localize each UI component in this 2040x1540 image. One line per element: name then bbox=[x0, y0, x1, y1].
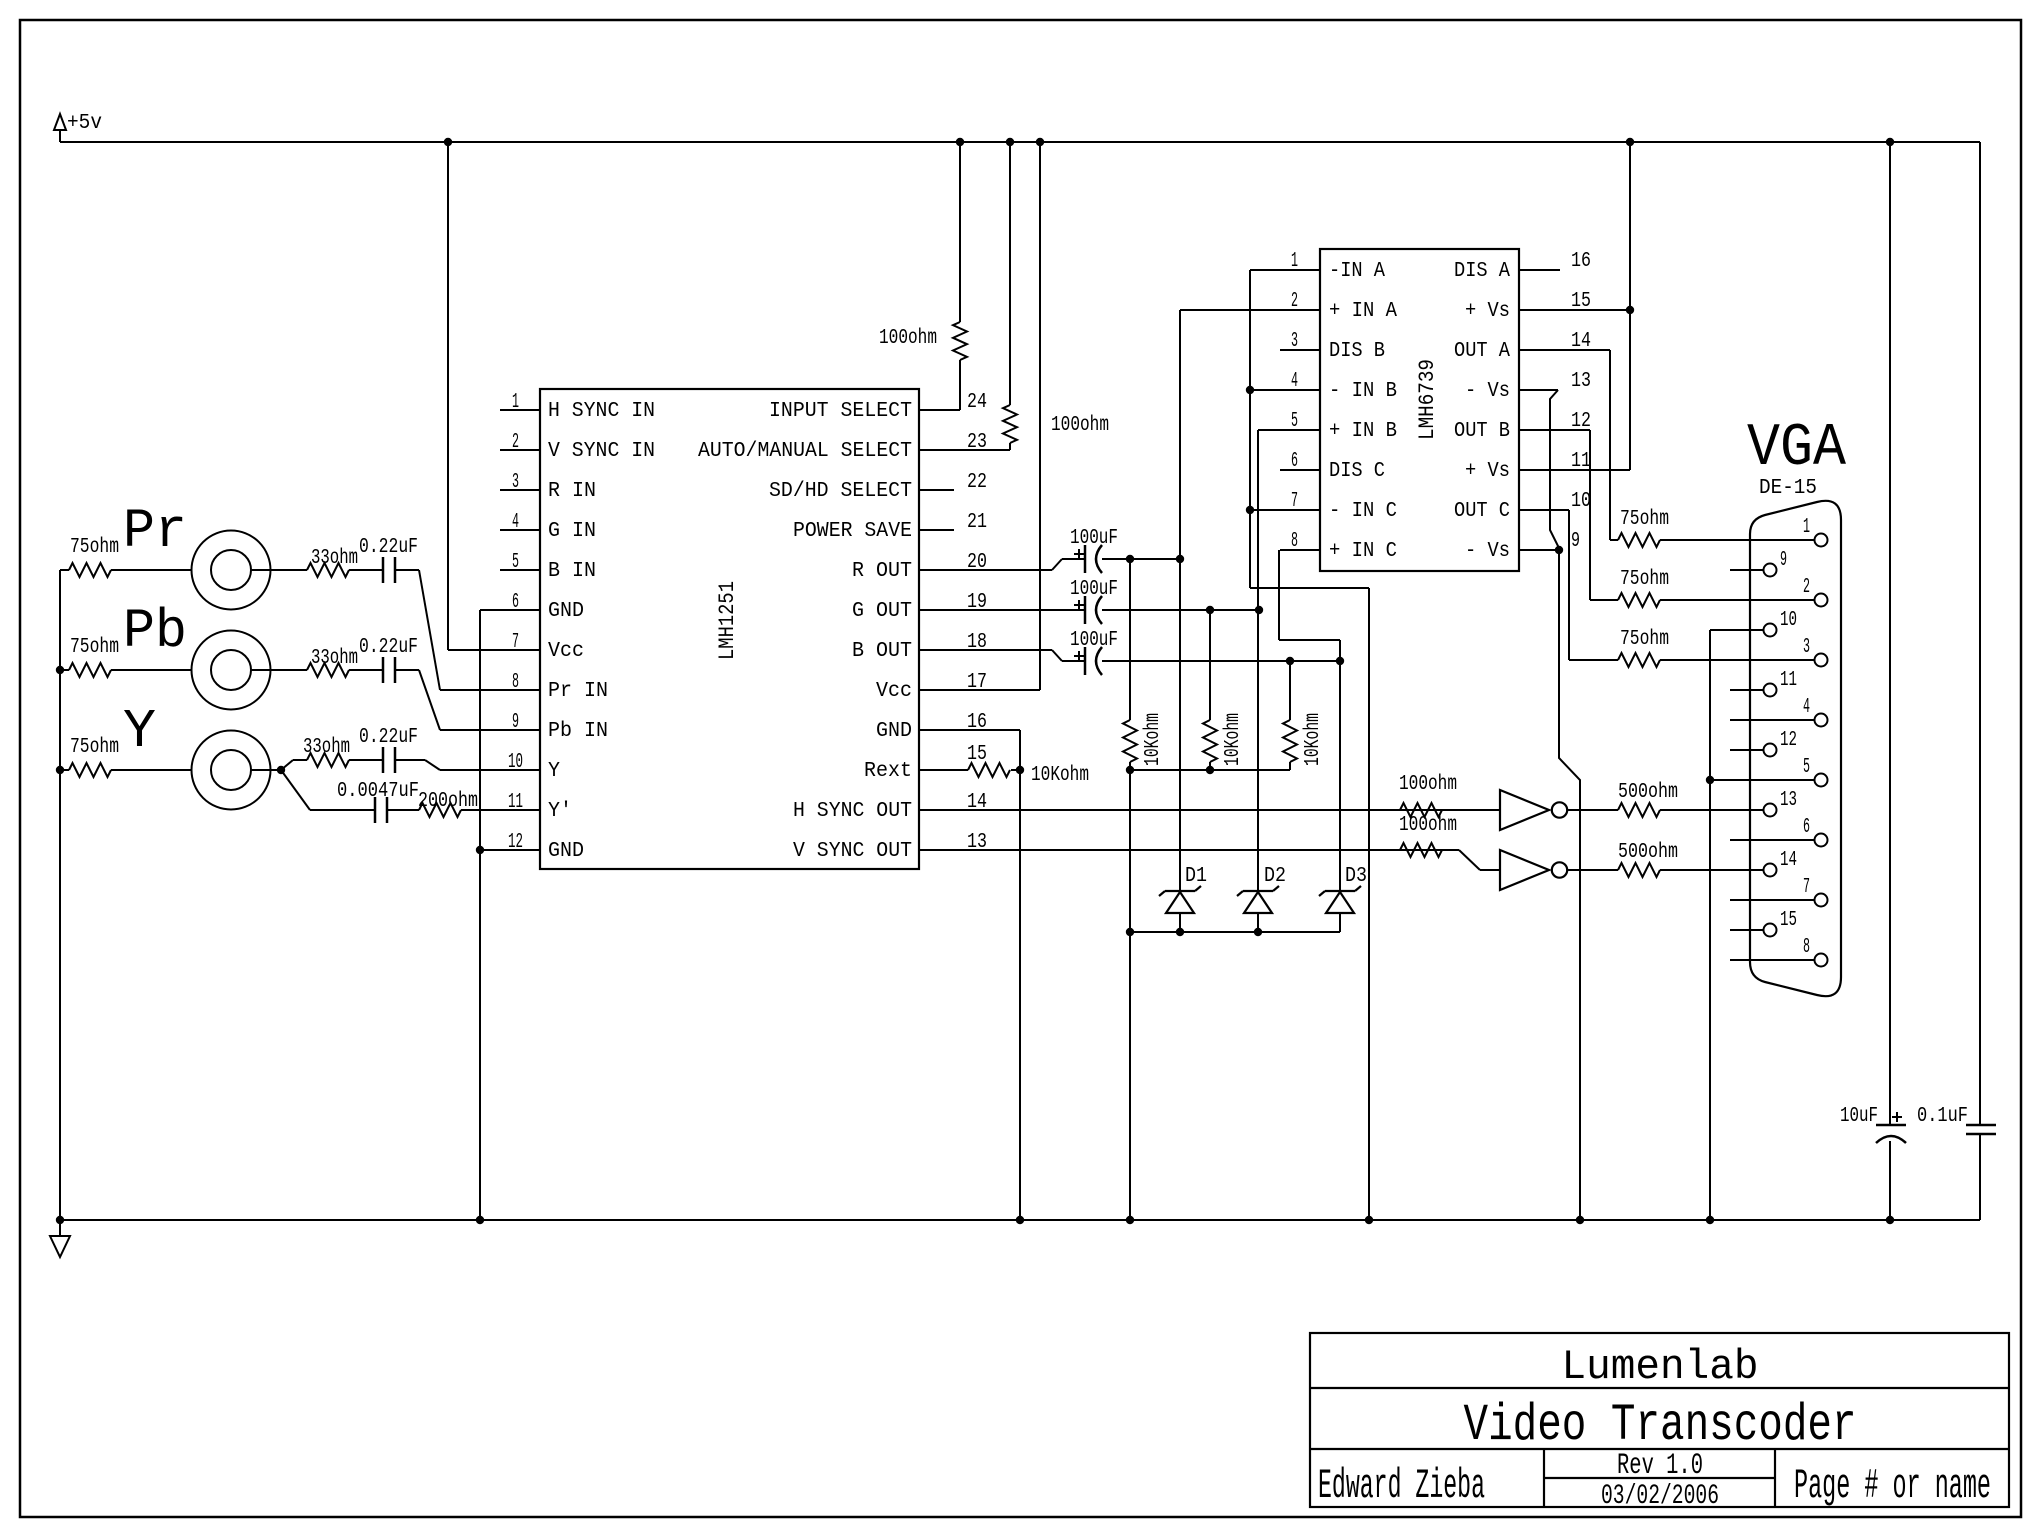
svg-text:Pr IN: Pr IN bbox=[548, 680, 608, 703]
svg-text:11: 11 bbox=[1571, 450, 1591, 473]
label 100uF R bbox=[1070, 527, 1118, 550]
LMH1251 pin 12 (GND) bbox=[500, 831, 584, 863]
svg-text:11: 11 bbox=[1780, 669, 1797, 692]
svg-text:14: 14 bbox=[1780, 849, 1797, 872]
junction +Vs riser / pin 15 bbox=[1626, 306, 1634, 314]
svg-text:+5v: +5v bbox=[67, 112, 102, 135]
svg-text:- Vs: - Vs bbox=[1465, 540, 1510, 563]
junction diode rail / D1 bbox=[1176, 928, 1184, 936]
diode D2 bbox=[1237, 886, 1279, 932]
junction ground rail / pin16 GND riser bbox=[1016, 1216, 1024, 1224]
capacitor 10uF bbox=[1876, 1112, 1906, 1220]
svg-text:Vcc: Vcc bbox=[548, 640, 584, 663]
label 500ohm V bbox=[1618, 841, 1678, 864]
VGA pin 13 bbox=[1730, 789, 1797, 817]
junction VGA GND bus / pin 5 bbox=[1706, 776, 1714, 784]
inverter buffer V bbox=[1500, 850, 1567, 890]
svg-text:Rev 1.0: Rev 1.0 bbox=[1617, 1449, 1703, 1483]
svg-text:SD/HD SELECT: SD/HD SELECT bbox=[769, 480, 912, 503]
wire +IN C jog bbox=[1279, 550, 1340, 640]
svg-text:75ohm: 75ohm bbox=[70, 736, 119, 759]
svg-text:D1: D1 bbox=[1185, 865, 1207, 888]
junction node Y split bbox=[277, 766, 285, 774]
junction ground rail / VGA GND bus bbox=[1706, 1216, 1714, 1224]
wire pulldown common bbox=[1130, 769, 1290, 771]
VGA pin 12 bbox=[1730, 729, 1797, 757]
label Pr bbox=[123, 500, 187, 563]
resistor 100ohm pullup AUTO/MANUAL bbox=[1003, 142, 1017, 450]
svg-text:0.0047uF: 0.0047uF bbox=[337, 780, 419, 803]
resistor 10Kohm pulldown G bbox=[1203, 610, 1217, 770]
LMH6739 pin 13 (- Vs) bbox=[1465, 370, 1591, 403]
svg-text:10: 10 bbox=[1780, 609, 1797, 632]
LMH6739 pin 14 (OUT A) bbox=[1454, 330, 1610, 363]
LMH1251 pin 22 (SD/HD SELECT) bbox=[769, 471, 987, 503]
LMH1251 pin 6 (GND) bbox=[500, 591, 584, 623]
svg-text:100uF: 100uF bbox=[1070, 629, 1118, 652]
label 500ohm H bbox=[1618, 781, 1678, 804]
label 0.22uF Pr bbox=[359, 536, 418, 559]
op-amp U2 LMH6739 body bbox=[1320, 249, 1519, 571]
resistor 10Kohm Rext bbox=[968, 763, 1020, 777]
svg-text:15: 15 bbox=[967, 743, 987, 766]
label 33ohm Y bbox=[303, 736, 350, 759]
label D1 bbox=[1185, 865, 1207, 888]
LMH1251 pin 18 (B OUT) bbox=[852, 631, 1052, 663]
label LMH1251 bbox=[715, 581, 740, 660]
junction G net / riser bbox=[1255, 606, 1263, 614]
LMH6739 pin 11 (+ Vs) bbox=[1465, 450, 1630, 483]
capacitor 100uF G bbox=[1074, 596, 1102, 624]
wire +5v rail bbox=[60, 141, 1980, 143]
label 100ohm H sync bbox=[1399, 773, 1457, 796]
svg-text:- IN C: - IN C bbox=[1329, 500, 1397, 523]
svg-text:33ohm: 33ohm bbox=[311, 647, 358, 670]
junction ground rail / -Vs riser bbox=[1576, 1216, 1584, 1224]
svg-text:3: 3 bbox=[1291, 330, 1298, 353]
svg-text:17: 17 bbox=[967, 671, 987, 694]
wire VGA GND to pin 5 bbox=[1710, 779, 1815, 781]
svg-text:3: 3 bbox=[1803, 636, 1810, 659]
resistor 100ohm V sync bbox=[1400, 843, 1459, 857]
LMH1251 pin 8 (Pr IN) bbox=[500, 671, 608, 703]
LMH1251 pin 20 (R OUT) bbox=[852, 551, 1052, 583]
junction pulldown common / clamp riser bbox=[1126, 766, 1134, 774]
junction +5v rail / 100ohm pullup 23 bbox=[1006, 138, 1014, 146]
svg-text:Page # or name: Page # or name bbox=[1794, 1462, 1991, 1510]
svg-text:OUT C: OUT C bbox=[1454, 500, 1510, 523]
svg-text:DIS B: DIS B bbox=[1329, 340, 1385, 363]
wire Y to Y' branch bbox=[281, 770, 375, 810]
junction pulldown common / G pulldown bbox=[1206, 766, 1214, 774]
junction ground rail / -IN riser bbox=[1365, 1216, 1373, 1224]
svg-text:8: 8 bbox=[1291, 530, 1298, 553]
inverter buffer H bbox=[1500, 790, 1567, 830]
svg-text:100ohm: 100ohm bbox=[879, 327, 937, 350]
svg-text:100uF: 100uF bbox=[1070, 578, 1118, 601]
svg-text:Y: Y bbox=[548, 760, 560, 783]
wire H to 500ohm bbox=[1567, 809, 1618, 811]
label Y bbox=[123, 700, 156, 763]
svg-text:Vcc: Vcc bbox=[876, 680, 912, 703]
junction -IN chain / pin 4 bbox=[1246, 386, 1254, 394]
LMH1251 pin 19 (G OUT) bbox=[852, 591, 1085, 623]
resistor 75ohm R out bbox=[1610, 533, 1814, 547]
VGA pin 5 bbox=[1730, 756, 1828, 787]
capacitor 100uF R bbox=[1074, 545, 1102, 573]
capacitor 0.1uF bbox=[1966, 1125, 1996, 1220]
label 100ohm pullup 24 bbox=[879, 327, 937, 350]
LMH6739 pin 2 (+ IN A) bbox=[1280, 290, 1397, 323]
svg-text:7: 7 bbox=[1291, 490, 1298, 513]
svg-text:9: 9 bbox=[1780, 549, 1787, 572]
label 100ohm pullup 23 bbox=[1051, 414, 1109, 437]
junction B net / riser bbox=[1336, 657, 1344, 665]
LMH6739 pin 15 (+ Vs) bbox=[1465, 290, 1630, 323]
svg-text:20: 20 bbox=[967, 551, 987, 574]
title text Page # or name bbox=[1794, 1462, 1991, 1510]
wire GND pin6 bbox=[480, 609, 540, 611]
svg-text:D3: D3 bbox=[1345, 865, 1367, 888]
resistor 100ohm pullup INPUT SELECT bbox=[953, 142, 967, 410]
svg-text:B OUT: B OUT bbox=[852, 640, 912, 663]
VGA pin 14 bbox=[1730, 849, 1797, 877]
capacitor 0.0047uF bbox=[375, 797, 387, 823]
LMH1251 pin 24 (INPUT SELECT) bbox=[769, 391, 987, 423]
wire Pb signal bbox=[251, 669, 307, 671]
LMH1251 pin 3 (R IN) bbox=[500, 471, 596, 503]
svg-text:5: 5 bbox=[1803, 756, 1810, 779]
junction -Vs / pin 9 bbox=[1555, 546, 1563, 554]
svg-text:DIS A: DIS A bbox=[1454, 260, 1510, 283]
LMH1251 pin 1 (H SYNC IN) bbox=[500, 391, 655, 423]
LMH6739 pin 8 (+ IN C) bbox=[1280, 530, 1397, 563]
svg-text:500ohm: 500ohm bbox=[1618, 841, 1678, 864]
VGA pin 10 bbox=[1730, 609, 1797, 637]
svg-text:12: 12 bbox=[1571, 410, 1591, 433]
junction diode rail / D2 bbox=[1254, 928, 1262, 936]
wire Pb to pin 9 bbox=[395, 670, 540, 730]
wire +Vs riser bbox=[1629, 142, 1631, 470]
svg-text:10Kohm: 10Kohm bbox=[1222, 713, 1245, 766]
junction ground rail / 10uF cap bbox=[1886, 1216, 1894, 1224]
svg-text:- IN B: - IN B bbox=[1329, 380, 1397, 403]
svg-text:22: 22 bbox=[967, 471, 987, 494]
junction G net / 10Kohm bbox=[1206, 606, 1214, 614]
LMH6739 pin 9 (- Vs) bbox=[1465, 530, 1580, 563]
wire V jog bbox=[1459, 850, 1501, 870]
svg-text:100ohm: 100ohm bbox=[1399, 814, 1457, 837]
resistor 33ohm Pr bbox=[307, 563, 383, 577]
svg-text:OUT A: OUT A bbox=[1454, 340, 1510, 363]
svg-text:0.1uF: 0.1uF bbox=[1917, 1105, 1968, 1128]
wire R OUT jog bbox=[1052, 559, 1085, 570]
VGA pin 7 bbox=[1730, 876, 1828, 907]
title text date bbox=[1601, 1481, 1719, 1512]
LMH1251 pin 7 (Vcc) bbox=[500, 631, 584, 663]
VGA pin 11 bbox=[1730, 669, 1797, 697]
svg-text:100uF: 100uF bbox=[1070, 527, 1118, 550]
svg-text:INPUT SELECT: INPUT SELECT bbox=[769, 400, 912, 423]
label 100uF B bbox=[1070, 629, 1118, 652]
resistor 75ohm Pr termination bbox=[60, 563, 192, 577]
junction +5v rail / Vcc pin17 riser bbox=[1036, 138, 1044, 146]
LMH1251 pin 11 (Y') bbox=[500, 791, 572, 823]
title text Rev 1.0 bbox=[1617, 1449, 1703, 1483]
svg-text:2: 2 bbox=[1291, 290, 1298, 313]
junction -IN chain / pin 7 bbox=[1246, 506, 1254, 514]
ground symbol bbox=[50, 1220, 70, 1257]
svg-text:GND: GND bbox=[548, 600, 584, 623]
VGA pin 3 bbox=[1730, 636, 1828, 667]
wire Y to pin 10 bbox=[395, 760, 540, 770]
label D2 bbox=[1264, 865, 1286, 888]
wire G net bbox=[1102, 609, 1259, 611]
svg-text:-IN A: -IN A bbox=[1329, 260, 1385, 283]
svg-text:6: 6 bbox=[1803, 816, 1810, 839]
wire GND pin12 bbox=[480, 849, 540, 851]
svg-text:500ohm: 500ohm bbox=[1618, 781, 1678, 804]
label 0.22uF Pb bbox=[359, 636, 418, 659]
svg-text:8: 8 bbox=[1803, 936, 1810, 959]
LMH6739 pin 16 (DIS A) bbox=[1454, 250, 1591, 283]
svg-text:14: 14 bbox=[1571, 330, 1591, 353]
svg-text:4: 4 bbox=[512, 511, 519, 534]
capacitor 0.22uF Pr bbox=[383, 557, 395, 583]
wire VGA GND bus bbox=[1710, 630, 1764, 1220]
svg-text:6: 6 bbox=[1291, 450, 1298, 473]
label 75ohm Pb bbox=[70, 636, 119, 659]
title block frame bbox=[1310, 1333, 2009, 1507]
svg-text:10uF: 10uF bbox=[1840, 1105, 1878, 1128]
svg-text:V SYNC IN: V SYNC IN bbox=[548, 440, 655, 463]
svg-text:1: 1 bbox=[1291, 250, 1298, 273]
wire -Vs riser bbox=[1559, 550, 1580, 1220]
wire diode rail bbox=[1130, 931, 1340, 933]
svg-text:2: 2 bbox=[1803, 576, 1810, 599]
svg-text:9: 9 bbox=[1571, 530, 1580, 553]
junction left riser / Y row bbox=[56, 766, 64, 774]
svg-text:75ohm: 75ohm bbox=[1620, 628, 1669, 651]
LMH1251 pin 4 (G IN) bbox=[500, 511, 596, 543]
wire Y to 33ohm bbox=[281, 760, 307, 770]
svg-text:+ IN C: + IN C bbox=[1329, 540, 1397, 563]
wire H SYNC OUT bbox=[919, 809, 1400, 811]
resistor 75ohm G out bbox=[1590, 593, 1814, 607]
junction R net / 10Kohm bbox=[1126, 555, 1134, 563]
label 33ohm Pb bbox=[311, 647, 358, 670]
LMH6739 pin 4 (- IN B) bbox=[1280, 370, 1397, 403]
svg-text:Rext: Rext bbox=[864, 760, 912, 783]
title text Edward Zieba bbox=[1318, 1462, 1485, 1510]
resistor 75ohm Pb termination bbox=[60, 663, 192, 677]
VGA pin 6 bbox=[1730, 816, 1828, 847]
junction R net / riser bbox=[1176, 555, 1184, 563]
resistor 75ohm Y termination bbox=[60, 763, 192, 777]
svg-text:VGA: VGA bbox=[1747, 415, 1846, 483]
wire OUT B riser bbox=[1589, 430, 1591, 600]
svg-text:- Vs: - Vs bbox=[1465, 380, 1510, 403]
svg-text:15: 15 bbox=[1780, 909, 1797, 932]
svg-text:10: 10 bbox=[508, 751, 523, 774]
label 10Kohm pulldown R bbox=[1142, 713, 1165, 766]
wire OUT C riser bbox=[1568, 510, 1570, 660]
svg-text:16: 16 bbox=[967, 711, 987, 734]
label DE-15 bbox=[1759, 477, 1817, 500]
VGA pin 4 bbox=[1730, 696, 1828, 727]
svg-text:75ohm: 75ohm bbox=[1620, 568, 1669, 591]
wire +IN B bbox=[1258, 429, 1280, 431]
svg-text:2: 2 bbox=[512, 431, 519, 454]
svg-text:4: 4 bbox=[1291, 370, 1298, 393]
resistor 500ohm H bbox=[1618, 803, 1763, 817]
connector RCA jack Y bbox=[192, 731, 271, 810]
svg-text:Edward Zieba: Edward Zieba bbox=[1318, 1462, 1485, 1510]
svg-text:Pb IN: Pb IN bbox=[548, 720, 608, 743]
power symbol +5v bbox=[54, 112, 102, 142]
junction clamp riser / diode rail bbox=[1126, 928, 1134, 936]
svg-text:0.22uF: 0.22uF bbox=[359, 536, 418, 559]
svg-text:LMH6739: LMH6739 bbox=[1415, 359, 1440, 440]
wire -Vs path bbox=[1550, 390, 1559, 550]
junction ground rail / LMH1251 GND riser bbox=[476, 1216, 484, 1224]
svg-text:AUTO/MANUAL SELECT: AUTO/MANUAL SELECT bbox=[698, 440, 912, 463]
label 100uF G bbox=[1070, 578, 1118, 601]
svg-text:75ohm: 75ohm bbox=[1620, 508, 1669, 531]
wire R riser to +IN A bbox=[1179, 310, 1181, 891]
svg-text:B IN: B IN bbox=[548, 560, 596, 583]
wire G riser to +IN B bbox=[1257, 430, 1259, 891]
LMH1251 pin 10 (Y) bbox=[500, 751, 560, 783]
connector RCA jack Pb bbox=[192, 631, 271, 710]
resistor 33ohm Pb bbox=[307, 663, 383, 677]
svg-text:7: 7 bbox=[1803, 876, 1810, 899]
VGA pin 15 bbox=[1730, 909, 1797, 937]
svg-text:10Kohm: 10Kohm bbox=[1031, 764, 1089, 787]
resistor 75ohm B out bbox=[1569, 653, 1814, 667]
LMH6739 pin 10 (OUT C) bbox=[1454, 490, 1591, 523]
svg-text:3: 3 bbox=[512, 471, 519, 494]
svg-text:9: 9 bbox=[512, 711, 519, 734]
LMH1251 pin 17 (Vcc) bbox=[876, 671, 1040, 703]
wire B net bbox=[1102, 660, 1340, 662]
svg-text:H SYNC IN: H SYNC IN bbox=[548, 400, 655, 423]
wire Y signal bbox=[251, 769, 281, 771]
LMH1251 pin 16 (GND) bbox=[876, 711, 1020, 743]
wire Pr to pin 8 bbox=[395, 570, 540, 690]
capacitor 0.22uF Y bbox=[383, 747, 395, 773]
svg-text:10Kohm: 10Kohm bbox=[1302, 713, 1325, 766]
svg-text:33ohm: 33ohm bbox=[303, 736, 350, 759]
label 33ohm Pr bbox=[311, 547, 358, 570]
wire -IN chain to ground bbox=[1250, 588, 1369, 1220]
wire Vcc pin17 riser bbox=[1039, 142, 1041, 690]
label 75ohm B out bbox=[1620, 628, 1669, 651]
label VGA bbox=[1747, 415, 1846, 483]
svg-text:0.22uF: 0.22uF bbox=[359, 726, 418, 749]
LMH6739 pin 3 (DIS B) bbox=[1280, 330, 1385, 363]
svg-text:Y': Y' bbox=[548, 800, 572, 823]
label 100ohm V sync bbox=[1399, 814, 1457, 837]
capacitor 100uF B bbox=[1074, 647, 1102, 675]
junction +5v rail / 10uF cap bbox=[1886, 138, 1894, 146]
label 200ohm bbox=[418, 790, 478, 813]
junction left riser / Pb row bbox=[56, 666, 64, 674]
LMH6739 pin 1 (-IN A) bbox=[1280, 250, 1385, 283]
junction ground rail / clamp net riser bbox=[1126, 1216, 1134, 1224]
LMH1251 pin 5 (B IN) bbox=[500, 551, 596, 583]
svg-text:+ IN A: + IN A bbox=[1329, 300, 1397, 323]
wire GND pin16 riser bbox=[1019, 730, 1021, 1220]
svg-text:DIS C: DIS C bbox=[1329, 460, 1385, 483]
VGA pin 8 bbox=[1730, 936, 1828, 967]
LMH1251 pin 2 (V SYNC IN) bbox=[500, 431, 655, 463]
svg-text:Pr: Pr bbox=[123, 500, 187, 563]
svg-text:5: 5 bbox=[1291, 410, 1298, 433]
wire B riser to +IN C bbox=[1339, 640, 1341, 891]
LMH1251 pin 15 (Rext) bbox=[864, 743, 987, 783]
svg-text:18: 18 bbox=[967, 631, 987, 654]
label 10Kohm pulldown G bbox=[1222, 713, 1245, 766]
wire B OUT jog bbox=[1052, 650, 1085, 661]
svg-text:13: 13 bbox=[1571, 370, 1591, 393]
svg-text:100ohm: 100ohm bbox=[1399, 773, 1457, 796]
svg-text:+ Vs: + Vs bbox=[1465, 460, 1510, 483]
svg-text:G IN: G IN bbox=[548, 520, 596, 543]
label 75ohm G out bbox=[1620, 568, 1669, 591]
wire R net bbox=[1102, 558, 1180, 560]
resistor 100ohm H sync bbox=[1400, 803, 1501, 817]
svg-text:200ohm: 200ohm bbox=[418, 790, 478, 813]
label 0.1uF bbox=[1917, 1105, 1968, 1128]
junction Rext / GND riser bbox=[1016, 766, 1024, 774]
label 75ohm Y bbox=[70, 736, 119, 759]
junction GND riser / pin12 bbox=[476, 846, 484, 854]
wire Pr signal bbox=[251, 569, 307, 571]
svg-text:GND: GND bbox=[548, 840, 584, 863]
svg-text:75ohm: 75ohm bbox=[70, 536, 119, 559]
svg-text:POWER SAVE: POWER SAVE bbox=[793, 520, 912, 543]
LMH1251 pin 14 (H SYNC OUT) bbox=[793, 791, 1501, 823]
svg-text:+ IN B: + IN B bbox=[1329, 420, 1397, 443]
label 75ohm Pr bbox=[70, 536, 119, 559]
svg-text:Y: Y bbox=[123, 700, 156, 763]
svg-text:0.22uF: 0.22uF bbox=[359, 636, 418, 659]
label 10Kohm Rext bbox=[1031, 764, 1089, 787]
resistor 10Kohm pulldown R bbox=[1123, 559, 1137, 770]
VGA pin 2 bbox=[1730, 576, 1828, 607]
svg-text:V SYNC OUT: V SYNC OUT bbox=[793, 840, 912, 863]
junction +5v rail / 100ohm pullup 24 bbox=[956, 138, 964, 146]
resistor 10Kohm pulldown B bbox=[1283, 661, 1297, 770]
svg-text:H SYNC OUT: H SYNC OUT bbox=[793, 800, 912, 823]
svg-text:75ohm: 75ohm bbox=[70, 636, 119, 659]
wire +IN A bbox=[1180, 309, 1280, 311]
svg-text:8: 8 bbox=[512, 671, 519, 694]
svg-text:16: 16 bbox=[1571, 250, 1591, 273]
svg-text:R IN: R IN bbox=[548, 480, 596, 503]
svg-text:23: 23 bbox=[967, 431, 987, 454]
svg-text:DE-15: DE-15 bbox=[1759, 477, 1817, 500]
LMH6739 pin 5 (+ IN B) bbox=[1280, 410, 1397, 443]
LMH6739 pin 6 (DIS C) bbox=[1280, 450, 1385, 483]
LMH6739 pin 12 (OUT B) bbox=[1454, 410, 1591, 443]
connector VGA DE-15 shell bbox=[1750, 501, 1841, 996]
junction B net / 10Kohm bbox=[1286, 657, 1294, 665]
label LMH6739 bbox=[1415, 359, 1440, 440]
svg-text:LMH1251: LMH1251 bbox=[715, 581, 740, 660]
wire OUT A riser bbox=[1609, 350, 1611, 540]
